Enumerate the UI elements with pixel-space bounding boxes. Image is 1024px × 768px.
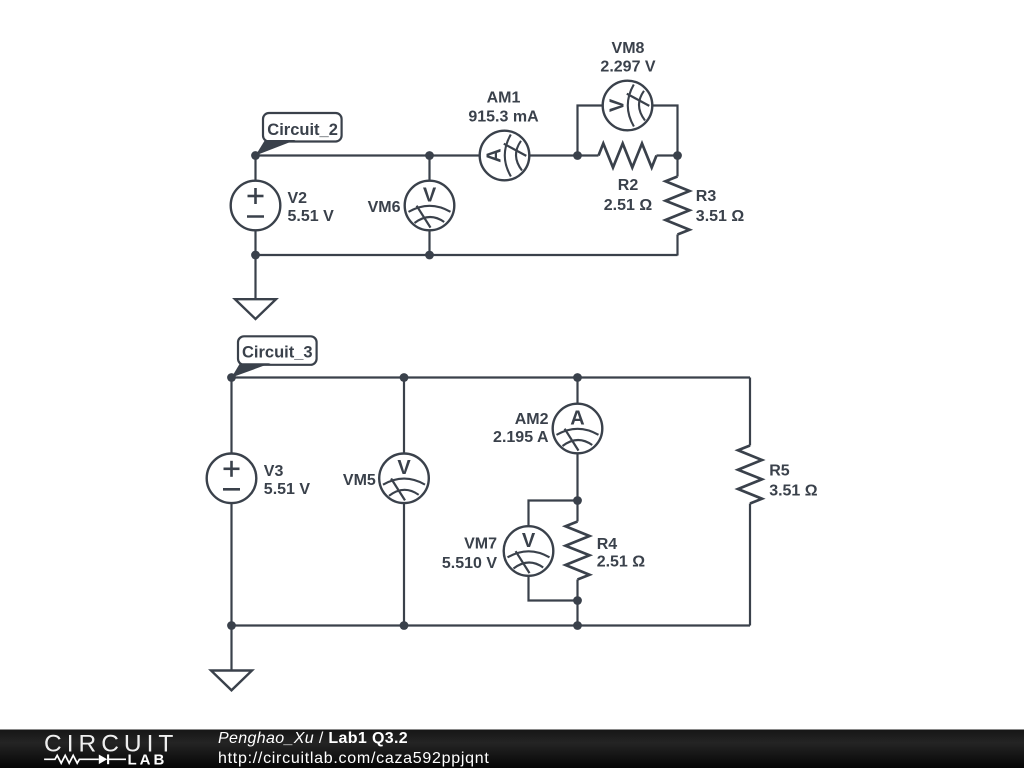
meter AM2 body circle: [553, 404, 603, 454]
wire VM6 top lead: [428, 156, 430, 181]
svg-text:Circuit_3: Circuit_3: [242, 344, 313, 362]
meter VM8 dial and letter (rotated -90): [606, 85, 645, 127]
svg-text:2.51 Ω: 2.51 Ω: [597, 553, 646, 570]
svg-text:2.51 Ω: 2.51 Ω: [604, 197, 653, 214]
node junction V2 bottom: [251, 251, 260, 260]
wire bottom rail C2: [256, 254, 678, 256]
meter AM1 body circle: [480, 131, 530, 181]
wire bottom rail C3: [232, 624, 751, 626]
wire VM6 bottom lead: [428, 230, 430, 255]
node junction VM5 top: [400, 373, 409, 382]
wire to ground C2: [254, 255, 256, 299]
node junction V3 bottom: [227, 621, 236, 630]
meter VM7 dial and letter: [508, 530, 550, 573]
voltage source V2: [231, 181, 281, 231]
footer title Penghao_Xu / Lab1 Q3.2: [218, 730, 408, 747]
wire node to VM7 top: [529, 501, 578, 527]
svg-text:V: V: [522, 530, 536, 552]
svg-text:A: A: [483, 148, 505, 162]
svg-text:Circuit_2: Circuit_2: [267, 121, 338, 139]
footer url: [218, 750, 490, 767]
net flag Circuit_2: [256, 113, 342, 156]
CircuitLab logo resistor zigzag: [44, 755, 99, 763]
svg-text:V: V: [423, 184, 437, 206]
label R4: [597, 536, 618, 553]
svg-text:AM2: AM2: [515, 411, 549, 428]
label V3: [264, 463, 284, 480]
svg-text:2.297 V: 2.297 V: [600, 59, 655, 76]
value R2 2.51 ohm: [604, 197, 653, 214]
node junction VM7 bottom: [573, 596, 582, 605]
meter VM5 dial and letter: [383, 457, 425, 500]
wire R5 to bottom rail: [749, 525, 751, 626]
svg-text:LAB: LAB: [128, 751, 168, 768]
wire V2 top lead: [254, 156, 256, 181]
wire V3 top lead: [230, 378, 232, 454]
wire VM5 bottom lead: [403, 503, 405, 625]
value AM1 915.3 mA: [468, 109, 539, 126]
meter VM8 needle: [627, 94, 650, 106]
meter VM6 dial and letter: [409, 184, 451, 227]
node junction R2 left: [573, 151, 582, 160]
value V3 5.51 V: [264, 481, 311, 498]
label V2: [288, 190, 308, 207]
node junction VM6 bottom: [425, 251, 434, 260]
CircuitLab logo diode symbol: [99, 754, 126, 764]
svg-text:VM5: VM5: [343, 472, 376, 489]
svg-text:Penghao_Xu / Lab1 Q3.2: Penghao_Xu / Lab1 Q3.2: [218, 730, 408, 747]
node junction VM6 top: [425, 151, 434, 160]
svg-text:http://circuitlab.com/caza592p: http://circuitlab.com/caza592ppjqnt: [218, 750, 490, 767]
label AM1: [487, 90, 521, 107]
node junction VM5 bottom: [400, 621, 409, 630]
svg-text:V: V: [397, 457, 411, 479]
meter AM1 needle: [504, 144, 527, 156]
wire to ground C3: [230, 626, 232, 671]
label R3: [696, 188, 717, 205]
value VM7 5.510 V: [442, 555, 497, 572]
svg-text:V: V: [606, 98, 628, 112]
wire R4 bottom to rail: [576, 601, 578, 626]
wire VM5 top lead: [403, 378, 405, 454]
svg-text:VM8: VM8: [612, 40, 645, 57]
net flag Circuit_3: [232, 336, 317, 377]
node junction R4 bottom rail: [573, 621, 582, 630]
node Circuit_3 junction: [227, 373, 236, 382]
wire V2 bottom lead: [254, 230, 256, 255]
svg-text:R4: R4: [597, 536, 618, 553]
wire node to VM8 left: [578, 106, 603, 156]
svg-text:R3: R3: [696, 188, 717, 205]
svg-text:915.3 mA: 915.3 mA: [468, 109, 539, 126]
label AM2: [515, 411, 549, 428]
node junction AM2 top: [573, 373, 582, 382]
svg-text:V2: V2: [288, 190, 308, 207]
wire top rail C2 (V2 to AM1): [256, 154, 480, 156]
CircuitLab logo CIRCUIT text: [44, 730, 178, 757]
wire VM7 bottom to node: [529, 576, 578, 601]
wire AM2 top lead: [576, 378, 578, 404]
resistor R5 (vertical): [738, 425, 762, 525]
wire AM2 to R4 node: [576, 453, 578, 500]
value AM2 2.195 A: [493, 429, 549, 446]
meter VM7 body circle: [504, 526, 554, 576]
svg-text:3.51 Ω: 3.51 Ω: [769, 483, 818, 500]
resistor R3 (vertical): [666, 156, 690, 256]
label VM6: [368, 199, 401, 216]
resistor R4 (vertical): [566, 501, 590, 601]
label R2: [618, 177, 639, 194]
svg-text:R5: R5: [769, 463, 790, 480]
wire AM1 to node: [530, 154, 578, 156]
wire VM8 right to node: [652, 106, 677, 156]
meter VM8 body circle: [603, 81, 653, 131]
svg-text:2.195 A: 2.195 A: [493, 429, 549, 446]
resistor R2 (horizontal): [578, 144, 678, 168]
value V2 5.51 V: [288, 208, 335, 225]
svg-text:VM7: VM7: [464, 536, 497, 553]
node Circuit_2 junction: [251, 151, 260, 160]
meter AM2 dial and letter: [557, 407, 599, 450]
voltage source V3: [207, 454, 257, 504]
value R4 2.51 ohm: [597, 553, 646, 570]
footer bar: [0, 730, 1024, 768]
wire top rail C3: [232, 376, 751, 378]
meter AM1 dial and letter (rotated -90): [483, 135, 522, 177]
node junction VM7 top: [573, 496, 582, 505]
svg-text:5.510 V: 5.510 V: [442, 555, 497, 572]
svg-text:5.51 V: 5.51 V: [264, 481, 311, 498]
svg-text:AM1: AM1: [487, 90, 521, 107]
svg-text:3.51 Ω: 3.51 Ω: [696, 208, 745, 225]
meter VM5 body circle: [379, 454, 429, 504]
label VM8: [612, 40, 645, 57]
ground C2: [235, 299, 276, 319]
node junction R2 right: [673, 151, 682, 160]
label VM7: [464, 536, 497, 553]
value VM8 2.297 V: [600, 59, 655, 76]
value R5 3.51 ohm: [769, 483, 818, 500]
value R3 3.51 ohm: [696, 208, 745, 225]
svg-text:VM6: VM6: [368, 199, 401, 216]
wire V3 bottom lead: [230, 503, 232, 625]
wire top rail to R5: [749, 378, 751, 425]
svg-text:5.51 V: 5.51 V: [288, 208, 335, 225]
label R5: [769, 463, 790, 480]
svg-text:A: A: [570, 407, 584, 429]
ground C3: [211, 671, 252, 691]
svg-text:R2: R2: [618, 177, 639, 194]
label VM5: [343, 472, 376, 489]
CircuitLab logo LAB text: [128, 751, 168, 768]
meter VM6 body circle: [405, 181, 455, 231]
svg-text:V3: V3: [264, 463, 284, 480]
